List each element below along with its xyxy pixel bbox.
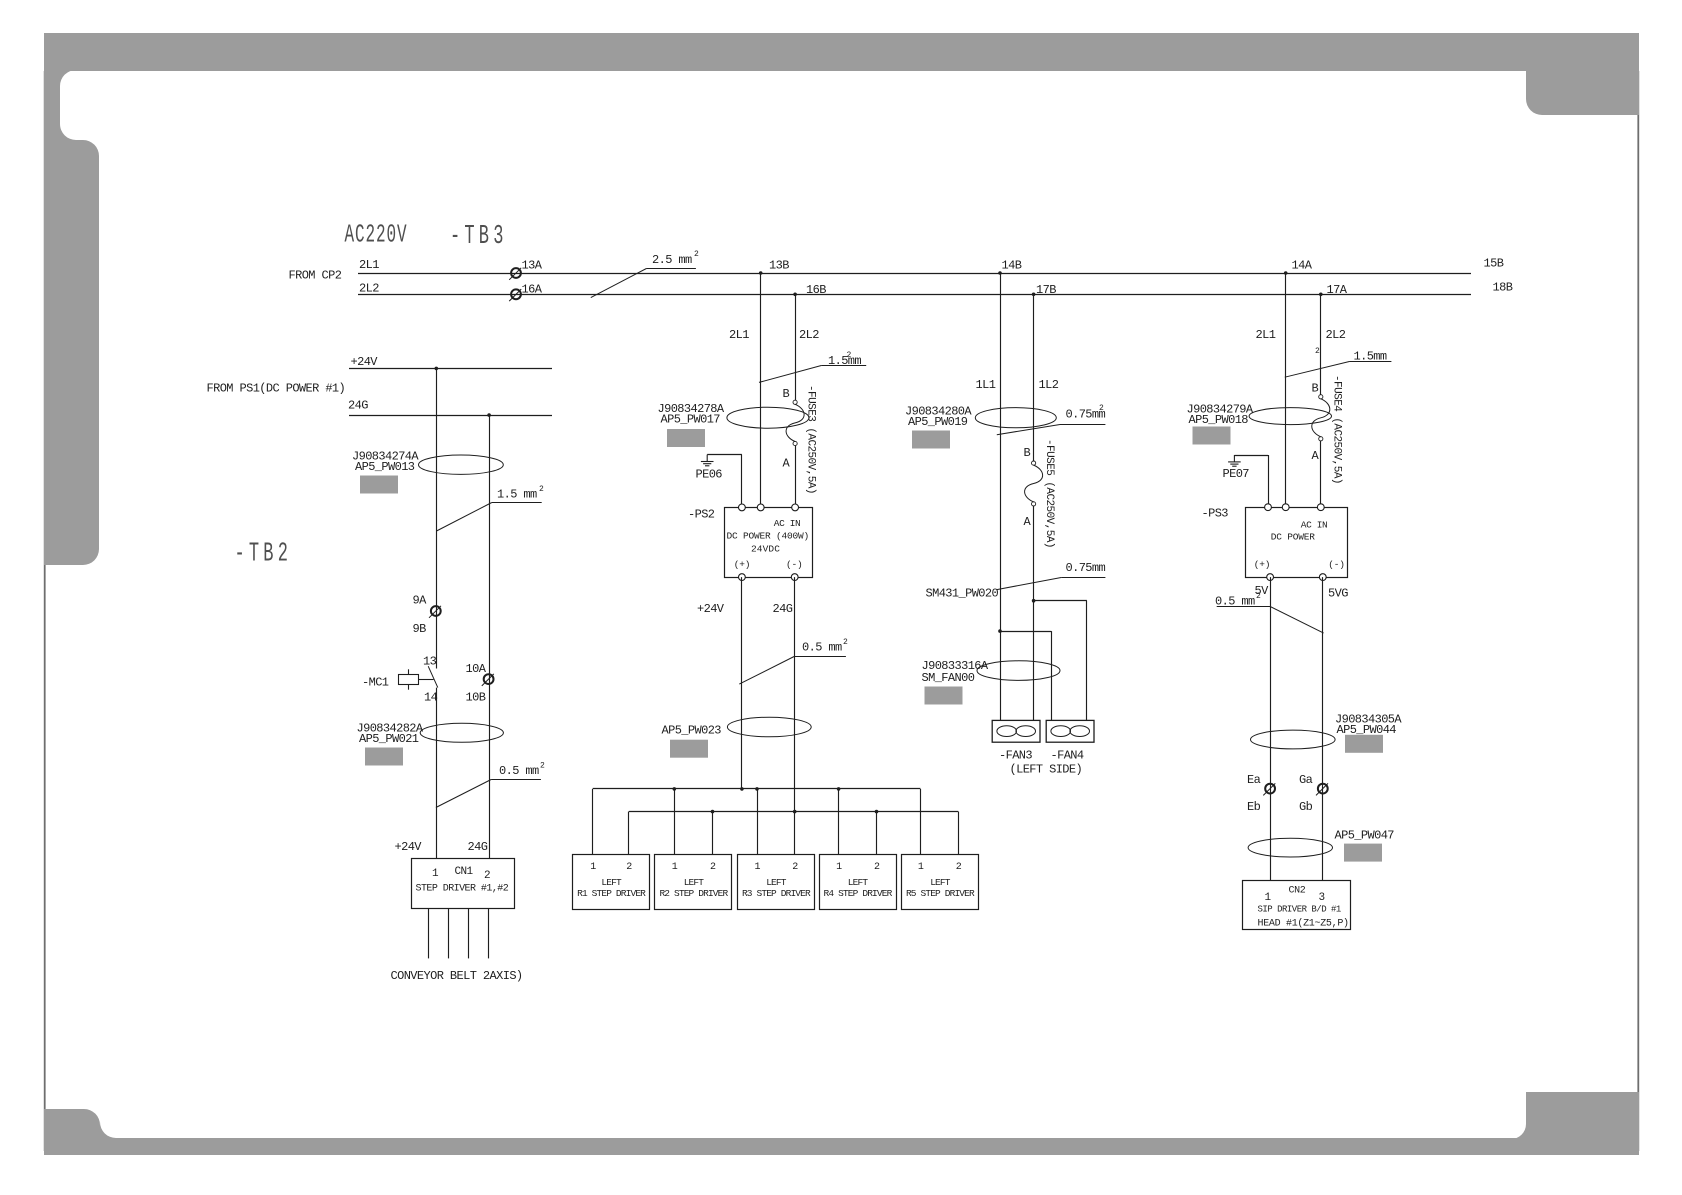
svg-text:AP5_PW013: AP5_PW013	[355, 460, 415, 474]
svg-text:0.5 mm: 0.5 mm	[1215, 595, 1255, 609]
svg-text:R2 STEP DRIVER: R2 STEP DRIVER	[659, 888, 728, 899]
wire CN1 stub 3	[468, 908, 470, 958]
svg-text:AP5_PW023: AP5_PW023	[662, 724, 722, 738]
svg-text:2: 2	[1256, 592, 1261, 601]
terminal 16A on 2L2 bus	[509, 289, 521, 301]
wire AC bus 2L1	[358, 273, 1471, 275]
svg-text:3: 3	[1319, 892, 1325, 904]
svg-text:2: 2	[539, 485, 544, 494]
wire 17A drop upper to fuse4	[1320, 294, 1322, 394]
junction R4 pin2	[875, 810, 879, 814]
svg-text:2L2: 2L2	[799, 328, 819, 342]
svg-text:1: 1	[918, 862, 924, 873]
svg-text:1: 1	[836, 862, 842, 873]
junction R3 pin1	[755, 787, 759, 791]
frame: top-right gray tab	[1526, 70, 1639, 115]
svg-text:DC POWER: DC POWER	[1271, 532, 1316, 543]
svg-text:1: 1	[755, 862, 761, 873]
svg-text:0.75mm: 0.75mm	[1066, 561, 1106, 575]
wire 16B drop lower from fuse3	[795, 446, 797, 508]
svg-text:2: 2	[626, 862, 632, 873]
svg-text:2: 2	[843, 638, 848, 647]
svg-text:PE06: PE06	[696, 468, 723, 482]
svg-text:2: 2	[956, 862, 962, 873]
svg-text:AP5_PW021: AP5_PW021	[359, 732, 419, 746]
wire R5 pin1 drop	[920, 789, 922, 855]
svg-text:14A: 14A	[1292, 259, 1313, 273]
svg-text:B: B	[1024, 446, 1031, 460]
frame: bottom gray bar with left tab	[44, 1109, 1639, 1155]
label AC220V	[345, 221, 408, 250]
leader label 0.5 mm wire gauge PS3	[1217, 607, 1324, 634]
svg-text:2: 2	[1099, 404, 1104, 413]
junction R4 pin1	[837, 787, 841, 791]
svg-text:2: 2	[792, 862, 798, 873]
frame: right thin border line	[1637, 71, 1639, 1151]
wire 24G PS2 down to R3 pin2	[794, 577, 796, 855]
wire PE07 to PS3	[1268, 455, 1270, 507]
leader label 2.5 mm2 wire gauge	[591, 269, 696, 298]
wire 13B drop to PS2	[760, 273, 762, 507]
wire +24V drop upper segment	[436, 368, 438, 668]
wire R1 pin2 drop	[628, 812, 630, 855]
svg-text:2: 2	[874, 862, 880, 873]
junction 14B tap on 2L1 bus	[998, 271, 1002, 275]
wire 24G distribution bus	[629, 811, 959, 813]
svg-text:14: 14	[424, 691, 438, 705]
svg-text:(+): (+)	[1254, 559, 1271, 570]
junction 13B tap on 2L1 bus	[759, 271, 763, 275]
wire PE06 to PS2	[741, 455, 743, 508]
svg-text:AP5_PW017: AP5_PW017	[661, 413, 721, 427]
svg-text:-MC1: -MC1	[362, 676, 389, 690]
junction R2 pin2	[711, 810, 715, 814]
svg-text:LEFT: LEFT	[766, 877, 787, 888]
wire R2 pin1 drop	[674, 789, 676, 855]
wire 16B drop upper to fuse3	[795, 294, 797, 400]
frame: bottom-right gray tab	[1511, 1092, 1639, 1139]
junction 24G to TB2 drop	[487, 413, 491, 417]
svg-text:16B: 16B	[806, 283, 826, 297]
ground PE07	[1234, 455, 1268, 457]
junction 17B tap on 2L2 bus	[1032, 293, 1036, 297]
svg-text:-FAN4: -FAN4	[1051, 749, 1084, 763]
svg-text:2L2: 2L2	[359, 282, 379, 296]
wire +24V distribution bus	[593, 788, 921, 790]
wire 1L2 tap to FAN4 right pin	[1034, 600, 1087, 602]
svg-text:1: 1	[432, 868, 439, 880]
svg-text:1L1: 1L1	[976, 378, 996, 392]
svg-text:2L2: 2L2	[1326, 328, 1346, 342]
svg-text:R3 STEP DRIVER: R3 STEP DRIVER	[742, 888, 811, 899]
svg-text:0.5 mm: 0.5 mm	[499, 764, 539, 778]
wire 17B drop upper to fuse5	[1033, 294, 1035, 461]
svg-text:-FUSE3 (AC250V,5A): -FUSE3 (AC250V,5A)	[805, 385, 817, 494]
svg-text:AP5_PW018: AP5_PW018	[1189, 413, 1249, 427]
junction 14A tap on 2L1 bus	[1284, 271, 1288, 275]
svg-text:LEFT: LEFT	[848, 877, 869, 888]
svg-text:2: 2	[1315, 347, 1320, 356]
svg-text:2: 2	[710, 862, 716, 873]
svg-text:B: B	[783, 387, 790, 401]
junction 1L1 to FAN4	[998, 629, 1002, 633]
svg-text:LEFT: LEFT	[930, 877, 951, 888]
junction +24V bus feed	[740, 787, 744, 791]
wire 1L1 tap to FAN4 left pin	[1000, 631, 1051, 633]
svg-text:FROM CP2: FROM CP2	[289, 269, 342, 283]
svg-text:-TB2: -TB2	[235, 538, 293, 569]
leader label 0.5 mm2 wire gauge PS2	[739, 657, 846, 685]
svg-text:1: 1	[1265, 892, 1272, 904]
svg-text:HEAD #1(Z1~Z5,P): HEAD #1(Z1~Z5,P)	[1258, 918, 1349, 930]
junction 16B tap on 2L2 bus	[793, 293, 797, 297]
connector CN1 STEP DRIVER #1,#2	[412, 859, 515, 909]
wire 5VG drop to CN2	[1322, 577, 1324, 880]
svg-text:24VDC: 24VDC	[751, 544, 780, 555]
svg-text:LEFT: LEFT	[684, 877, 705, 888]
wire 14A drop to PS3	[1285, 273, 1287, 507]
svg-text:-PS3: -PS3	[1202, 507, 1229, 521]
leader label 1.5mm wire gauge PS3	[1285, 362, 1392, 378]
fan -FAN4	[1046, 720, 1094, 742]
driver box R4 LEFT STEP DRIVER	[820, 855, 897, 910]
leader label 0.5 mm2 wire gauge TB2	[436, 780, 541, 808]
svg-text:FROM PS1(DC POWER #1): FROM PS1(DC POWER #1)	[207, 382, 346, 396]
wire R3 pin1 drop	[757, 789, 759, 855]
svg-text:1L2: 1L2	[1039, 378, 1059, 392]
wire CN1 stub 4	[488, 908, 490, 958]
svg-text:R1 STEP DRIVER: R1 STEP DRIVER	[577, 888, 646, 899]
svg-text:-TB3: -TB3	[450, 220, 508, 251]
svg-text:+24V: +24V	[351, 355, 379, 369]
wire CN1 stub 1	[428, 908, 430, 958]
svg-text:AP5_PW047: AP5_PW047	[1335, 829, 1395, 843]
driver box R5 LEFT STEP DRIVER	[902, 855, 979, 910]
svg-text:SIP DRIVER B/D #1: SIP DRIVER B/D #1	[1258, 905, 1341, 915]
leader label 0.75mm wire gauge FAN lower	[997, 578, 1106, 590]
wire CN1 stub 2	[448, 908, 450, 958]
label -TB3	[450, 220, 508, 251]
svg-text:B: B	[1312, 382, 1319, 396]
wire +24V drop lower segment	[436, 688, 438, 858]
terminal 13A on 2L1 bus	[509, 268, 521, 280]
svg-text:(+): (+)	[734, 559, 751, 570]
svg-text:Gb: Gb	[1299, 800, 1313, 814]
junction +24V to TB2 drop	[435, 367, 439, 371]
connector CN2 SIP DRIVER	[1243, 881, 1351, 930]
svg-text:2: 2	[694, 250, 699, 259]
svg-text:9A: 9A	[413, 594, 428, 608]
svg-text:17B: 17B	[1036, 283, 1056, 297]
junction 17A tap on 2L2 bus	[1319, 293, 1323, 297]
svg-text:2L1: 2L1	[1256, 328, 1276, 342]
wire AC bus 2L2	[358, 294, 1471, 296]
svg-text:10A: 10A	[466, 662, 487, 676]
svg-text:1.5mm: 1.5mm	[828, 354, 861, 368]
wire 5V drop to CN2	[1270, 577, 1272, 880]
frame: top gray bar	[44, 33, 1639, 71]
svg-text:24G: 24G	[348, 399, 368, 413]
driver box R1 LEFT STEP DRIVER	[573, 855, 650, 910]
svg-text:5VG: 5VG	[1328, 587, 1348, 601]
svg-text:DC POWER (400W): DC POWER (400W)	[727, 531, 810, 542]
svg-text:Ea: Ea	[1247, 773, 1261, 787]
junction R2 pin1	[673, 787, 677, 791]
ground PE06	[707, 454, 742, 456]
wire 14B drop to FAN3 pin1	[1000, 273, 1002, 720]
wire R4 pin1 drop	[838, 789, 840, 855]
svg-text:R5 STEP DRIVER: R5 STEP DRIVER	[906, 888, 975, 899]
leader label 1.5mm wire gauge PS2	[759, 366, 866, 383]
wire R4 pin2 drop	[876, 812, 878, 855]
svg-text:2L1: 2L1	[729, 328, 749, 342]
svg-text:16A: 16A	[522, 283, 543, 297]
leader label 1.5 mm2 wire gauge TB2	[437, 503, 542, 532]
svg-text:9B: 9B	[413, 622, 427, 636]
wire 24G horizontal from PS1	[349, 415, 552, 417]
svg-text:-FUSE4 (AC250V,5A): -FUSE4 (AC250V,5A)	[1331, 375, 1343, 484]
svg-text:CN1: CN1	[455, 866, 474, 878]
svg-text:1.5 mm: 1.5 mm	[497, 488, 537, 502]
svg-text:2: 2	[484, 870, 490, 882]
svg-text:LEFT: LEFT	[601, 877, 622, 888]
wire R1 pin1 drop	[592, 789, 594, 855]
svg-text:AC IN: AC IN	[1301, 520, 1328, 531]
svg-text:17A: 17A	[1327, 283, 1348, 297]
svg-text:-FAN3: -FAN3	[999, 749, 1032, 763]
svg-text:+24V: +24V	[395, 840, 423, 854]
label -TB2	[235, 538, 293, 569]
svg-text:10B: 10B	[466, 691, 486, 705]
svg-text:STEP DRIVER #1,#2: STEP DRIVER #1,#2	[416, 884, 509, 895]
driver box R2 LEFT STEP DRIVER	[655, 855, 732, 910]
svg-text:0.5 mm: 0.5 mm	[802, 641, 842, 655]
svg-text:2.5 mm: 2.5 mm	[652, 253, 692, 267]
svg-text:Ga: Ga	[1299, 773, 1313, 787]
svg-text:CONVEYOR BELT 2AXIS): CONVEYOR BELT 2AXIS)	[391, 969, 523, 983]
svg-text:14B: 14B	[1002, 259, 1022, 273]
svg-text:R4 STEP DRIVER: R4 STEP DRIVER	[824, 888, 893, 899]
svg-text:-FUSE5 (AC250V,5A): -FUSE5 (AC250V,5A)	[1043, 439, 1055, 548]
svg-text:2L1: 2L1	[359, 258, 379, 272]
frame: top-left gray column with notch	[44, 70, 99, 565]
svg-text:18B: 18B	[1493, 281, 1513, 295]
svg-text:-PS2: -PS2	[688, 508, 715, 522]
wire R2 pin2 drop	[712, 812, 714, 855]
svg-text:13: 13	[423, 655, 437, 669]
svg-text:1: 1	[672, 862, 678, 873]
svg-text:15B: 15B	[1484, 257, 1504, 271]
svg-text:AC220V: AC220V	[345, 221, 408, 250]
svg-text:(-): (-)	[1328, 559, 1345, 570]
junction 1L2 to FAN4	[1032, 599, 1036, 603]
svg-text:CN2: CN2	[1289, 886, 1306, 897]
leader label 0.75mm2 wire gauge FAN	[997, 425, 1106, 435]
svg-text:(-): (-)	[786, 559, 803, 570]
svg-text:2: 2	[847, 351, 852, 360]
svg-text:24G: 24G	[773, 602, 793, 616]
svg-text:(LEFT SIDE): (LEFT SIDE)	[1010, 763, 1083, 777]
wire 24G drop	[489, 415, 491, 858]
wire R5 pin2 drop	[958, 812, 960, 855]
svg-text:SM431_PW020: SM431_PW020	[926, 587, 999, 601]
svg-text:PE07: PE07	[1223, 467, 1250, 481]
svg-text:13B: 13B	[769, 259, 789, 273]
svg-text:13A: 13A	[522, 259, 543, 273]
fan -FAN3	[992, 720, 1040, 742]
junction 24G bus feed R3 pin2	[793, 810, 797, 814]
svg-text:1.5mm: 1.5mm	[1354, 350, 1387, 364]
driver box R3 LEFT STEP DRIVER	[738, 855, 815, 910]
svg-text:1: 1	[590, 862, 596, 873]
wire 17B drop below fuse5	[1033, 506, 1035, 720]
svg-text:Eb: Eb	[1247, 800, 1261, 814]
svg-text:+24V: +24V	[697, 602, 725, 616]
svg-text:AC IN: AC IN	[774, 518, 801, 529]
svg-text:AP5_PW019: AP5_PW019	[908, 415, 968, 429]
wire +24V PS2 down to driver bus	[741, 577, 743, 789]
svg-text:24G: 24G	[468, 840, 488, 854]
svg-text:2: 2	[540, 762, 545, 771]
frame: left thin border line	[44, 71, 46, 1151]
wire 17A drop lower from fuse4	[1320, 441, 1322, 507]
svg-text:SM_FAN00: SM_FAN00	[922, 671, 975, 685]
wire +24V horizontal from PS1	[349, 368, 552, 370]
